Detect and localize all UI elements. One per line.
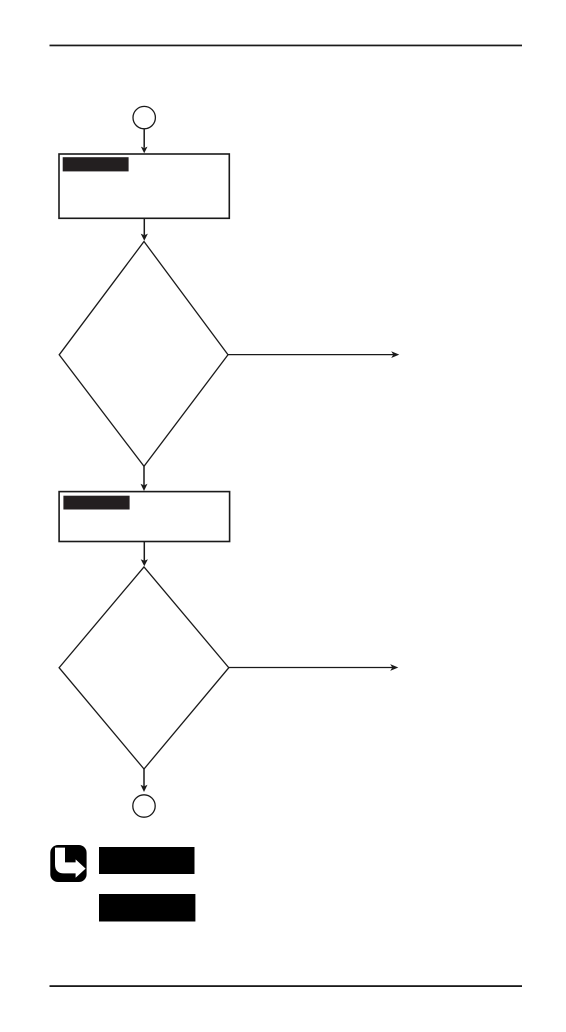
decision diamond 1 [59,242,228,467]
branch arrow right from decision 1 [228,351,399,358]
wire: process box 2 to decision 2 [141,542,148,567]
end circle [133,795,155,817]
footer rule [50,985,523,987]
header rule [50,45,523,47]
wire: start circle to process box 1 [141,129,148,153]
note icon (black rounded square with white curved arrow) [50,845,86,882]
decision diamond 2 [59,567,229,769]
redacted note text bar 1 [99,847,195,874]
wire: decision 1 to process box 2 [141,466,148,491]
process box 1 [59,154,229,218]
start circle [133,106,155,128]
process box 2 [59,492,230,542]
redacted label bar in box 1 [63,157,129,171]
wire: process box 1 to decision 1 [141,218,148,241]
redacted label bar in box 2 [63,496,129,510]
branch arrow right from decision 2 [229,664,398,671]
wire: decision 2 to end circle [141,769,148,792]
redacted note text bar 2 [99,894,195,922]
